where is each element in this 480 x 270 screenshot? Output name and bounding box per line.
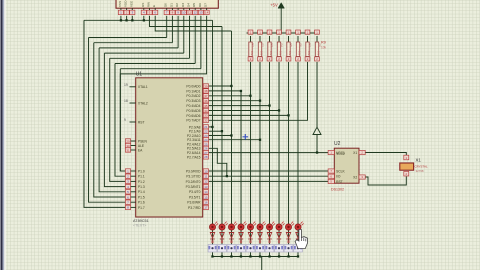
svg-text:32: 32 <box>204 119 208 123</box>
svg-text:15: 15 <box>204 195 208 199</box>
svg-text:E: E <box>152 5 156 7</box>
svg-text:18: 18 <box>124 99 128 103</box>
svg-text:10k: 10k <box>279 51 283 56</box>
svg-text:XTAL1: XTAL1 <box>138 85 148 89</box>
svg-text:VSS: VSS <box>118 1 122 7</box>
svg-text:11: 11 <box>204 175 207 179</box>
svg-text:10k: 10k <box>317 51 321 56</box>
svg-text:P1.4: P1.4 <box>138 190 145 194</box>
svg-text:D1: D1 <box>169 3 173 7</box>
svg-text:P3.5/T1: P3.5/T1 <box>189 195 201 199</box>
svg-text:D5: D5 <box>192 3 196 7</box>
svg-text:P3.1/TXD: P3.1/TXD <box>186 175 201 179</box>
svg-text:D7: D7 <box>204 3 208 7</box>
svg-text:10k: 10k <box>298 51 302 56</box>
svg-text:X2: X2 <box>353 175 357 179</box>
svg-text:P0.0/AD0: P0.0/AD0 <box>186 84 200 88</box>
svg-text:R9: R9 <box>321 41 326 45</box>
svg-text:33: 33 <box>204 114 208 118</box>
svg-text:11: 11 <box>188 11 191 15</box>
svg-text:D6: D6 <box>198 3 202 7</box>
svg-text:10k: 10k <box>260 51 264 56</box>
svg-text:32768: 32768 <box>416 169 424 173</box>
svg-text:10k: 10k <box>321 46 327 50</box>
svg-text:10k: 10k <box>307 51 311 56</box>
svg-text:P3.3/INT1: P3.3/INT1 <box>186 185 201 189</box>
svg-text:R7: R7 <box>308 44 312 48</box>
svg-text:AT89C51: AT89C51 <box>133 219 149 223</box>
svg-text:X1: X1 <box>416 158 422 163</box>
svg-text:P2.7/A15: P2.7/A15 <box>187 155 201 159</box>
svg-text:10: 10 <box>204 169 208 173</box>
svg-text:R4: R4 <box>280 44 284 48</box>
svg-text:P1.2: P1.2 <box>138 180 145 184</box>
svg-text:VEE: VEE <box>129 1 133 7</box>
svg-text:P1.5: P1.5 <box>138 195 145 199</box>
svg-text:P0.6/AD6: P0.6/AD6 <box>186 114 200 118</box>
svg-text:CRYSTAL: CRYSTAL <box>415 164 428 168</box>
svg-text:R3: R3 <box>270 44 274 48</box>
svg-text:P1.0: P1.0 <box>138 169 145 173</box>
svg-text:P1.3: P1.3 <box>138 185 145 189</box>
svg-text:14: 14 <box>205 11 209 15</box>
svg-text:P0.5/AD5: P0.5/AD5 <box>186 109 200 113</box>
svg-text:28: 28 <box>204 155 208 159</box>
svg-text:VDD: VDD <box>124 0 128 7</box>
svg-text:38: 38 <box>204 89 208 93</box>
svg-text:RST: RST <box>336 180 343 184</box>
svg-text:<TEXT>: <TEXT> <box>133 224 146 228</box>
svg-text:D3: D3 <box>181 3 185 7</box>
svg-text:P0.7/AD7: P0.7/AD7 <box>186 119 200 123</box>
svg-text:R6: R6 <box>299 44 303 48</box>
svg-text:XTAL2: XTAL2 <box>138 101 148 105</box>
svg-text:SCLK: SCLK <box>336 169 345 173</box>
svg-text:19: 19 <box>124 83 128 87</box>
svg-text:P1.7: P1.7 <box>138 206 145 210</box>
svg-text:D2: D2 <box>175 3 179 7</box>
svg-text:RS: RS <box>141 3 145 7</box>
svg-text:13: 13 <box>199 11 203 15</box>
svg-text:P0.3/AD3: P0.3/AD3 <box>186 99 200 103</box>
svg-text:9: 9 <box>124 118 126 122</box>
svg-text:P3.4/T0: P3.4/T0 <box>189 190 201 194</box>
svg-text:R2: R2 <box>261 44 265 48</box>
svg-text:P3.7/RD: P3.7/RD <box>188 206 201 210</box>
svg-text:37: 37 <box>204 94 208 98</box>
svg-text:P3.6/WR: P3.6/WR <box>187 201 201 205</box>
svg-text:12: 12 <box>204 180 208 184</box>
svg-text:39: 39 <box>204 84 208 88</box>
svg-text:R1: R1 <box>251 44 255 48</box>
svg-text:RW: RW <box>147 2 151 7</box>
svg-text:16: 16 <box>204 201 208 205</box>
svg-text:10k: 10k <box>288 51 292 56</box>
svg-text:10: 10 <box>182 11 186 15</box>
svg-text:P0.4/AD4: P0.4/AD4 <box>186 104 200 108</box>
svg-text:DS1302: DS1302 <box>331 188 344 192</box>
svg-text:U2: U2 <box>334 141 341 147</box>
svg-text:14: 14 <box>204 190 208 194</box>
svg-text:+5V: +5V <box>270 3 278 8</box>
svg-text:P1.1: P1.1 <box>138 175 145 179</box>
svg-text:P3.2/INT0: P3.2/INT0 <box>186 180 201 184</box>
svg-text:U1: U1 <box>136 72 143 78</box>
svg-text:PSEN: PSEN <box>138 139 148 143</box>
svg-text:X1: X1 <box>353 151 357 155</box>
svg-text:D0: D0 <box>164 3 168 7</box>
svg-text:P0.1/AD1: P0.1/AD1 <box>186 89 200 93</box>
svg-text:ALE: ALE <box>138 144 145 148</box>
svg-text:RST: RST <box>138 120 145 124</box>
svg-text:35: 35 <box>204 104 208 108</box>
svg-text:29: 29 <box>126 139 130 143</box>
svg-text:10k: 10k <box>269 51 273 56</box>
svg-text:R5: R5 <box>289 44 293 48</box>
svg-text:D4: D4 <box>187 3 191 7</box>
svg-text:31: 31 <box>126 148 130 152</box>
svg-text:P3.0/RXD: P3.0/RXD <box>186 169 201 173</box>
svg-text:13: 13 <box>204 185 208 189</box>
svg-text:P0.2/AD2: P0.2/AD2 <box>186 94 200 98</box>
svg-text:30: 30 <box>126 144 130 148</box>
svg-text:12: 12 <box>194 11 198 15</box>
svg-text:10k: 10k <box>250 51 254 56</box>
svg-text:P1.6: P1.6 <box>138 201 145 205</box>
svg-text:VCC2: VCC2 <box>336 152 345 156</box>
svg-text:36: 36 <box>204 99 208 103</box>
svg-text:17: 17 <box>204 206 208 210</box>
svg-text:34: 34 <box>204 109 208 113</box>
svg-text:I/O: I/O <box>336 175 341 179</box>
